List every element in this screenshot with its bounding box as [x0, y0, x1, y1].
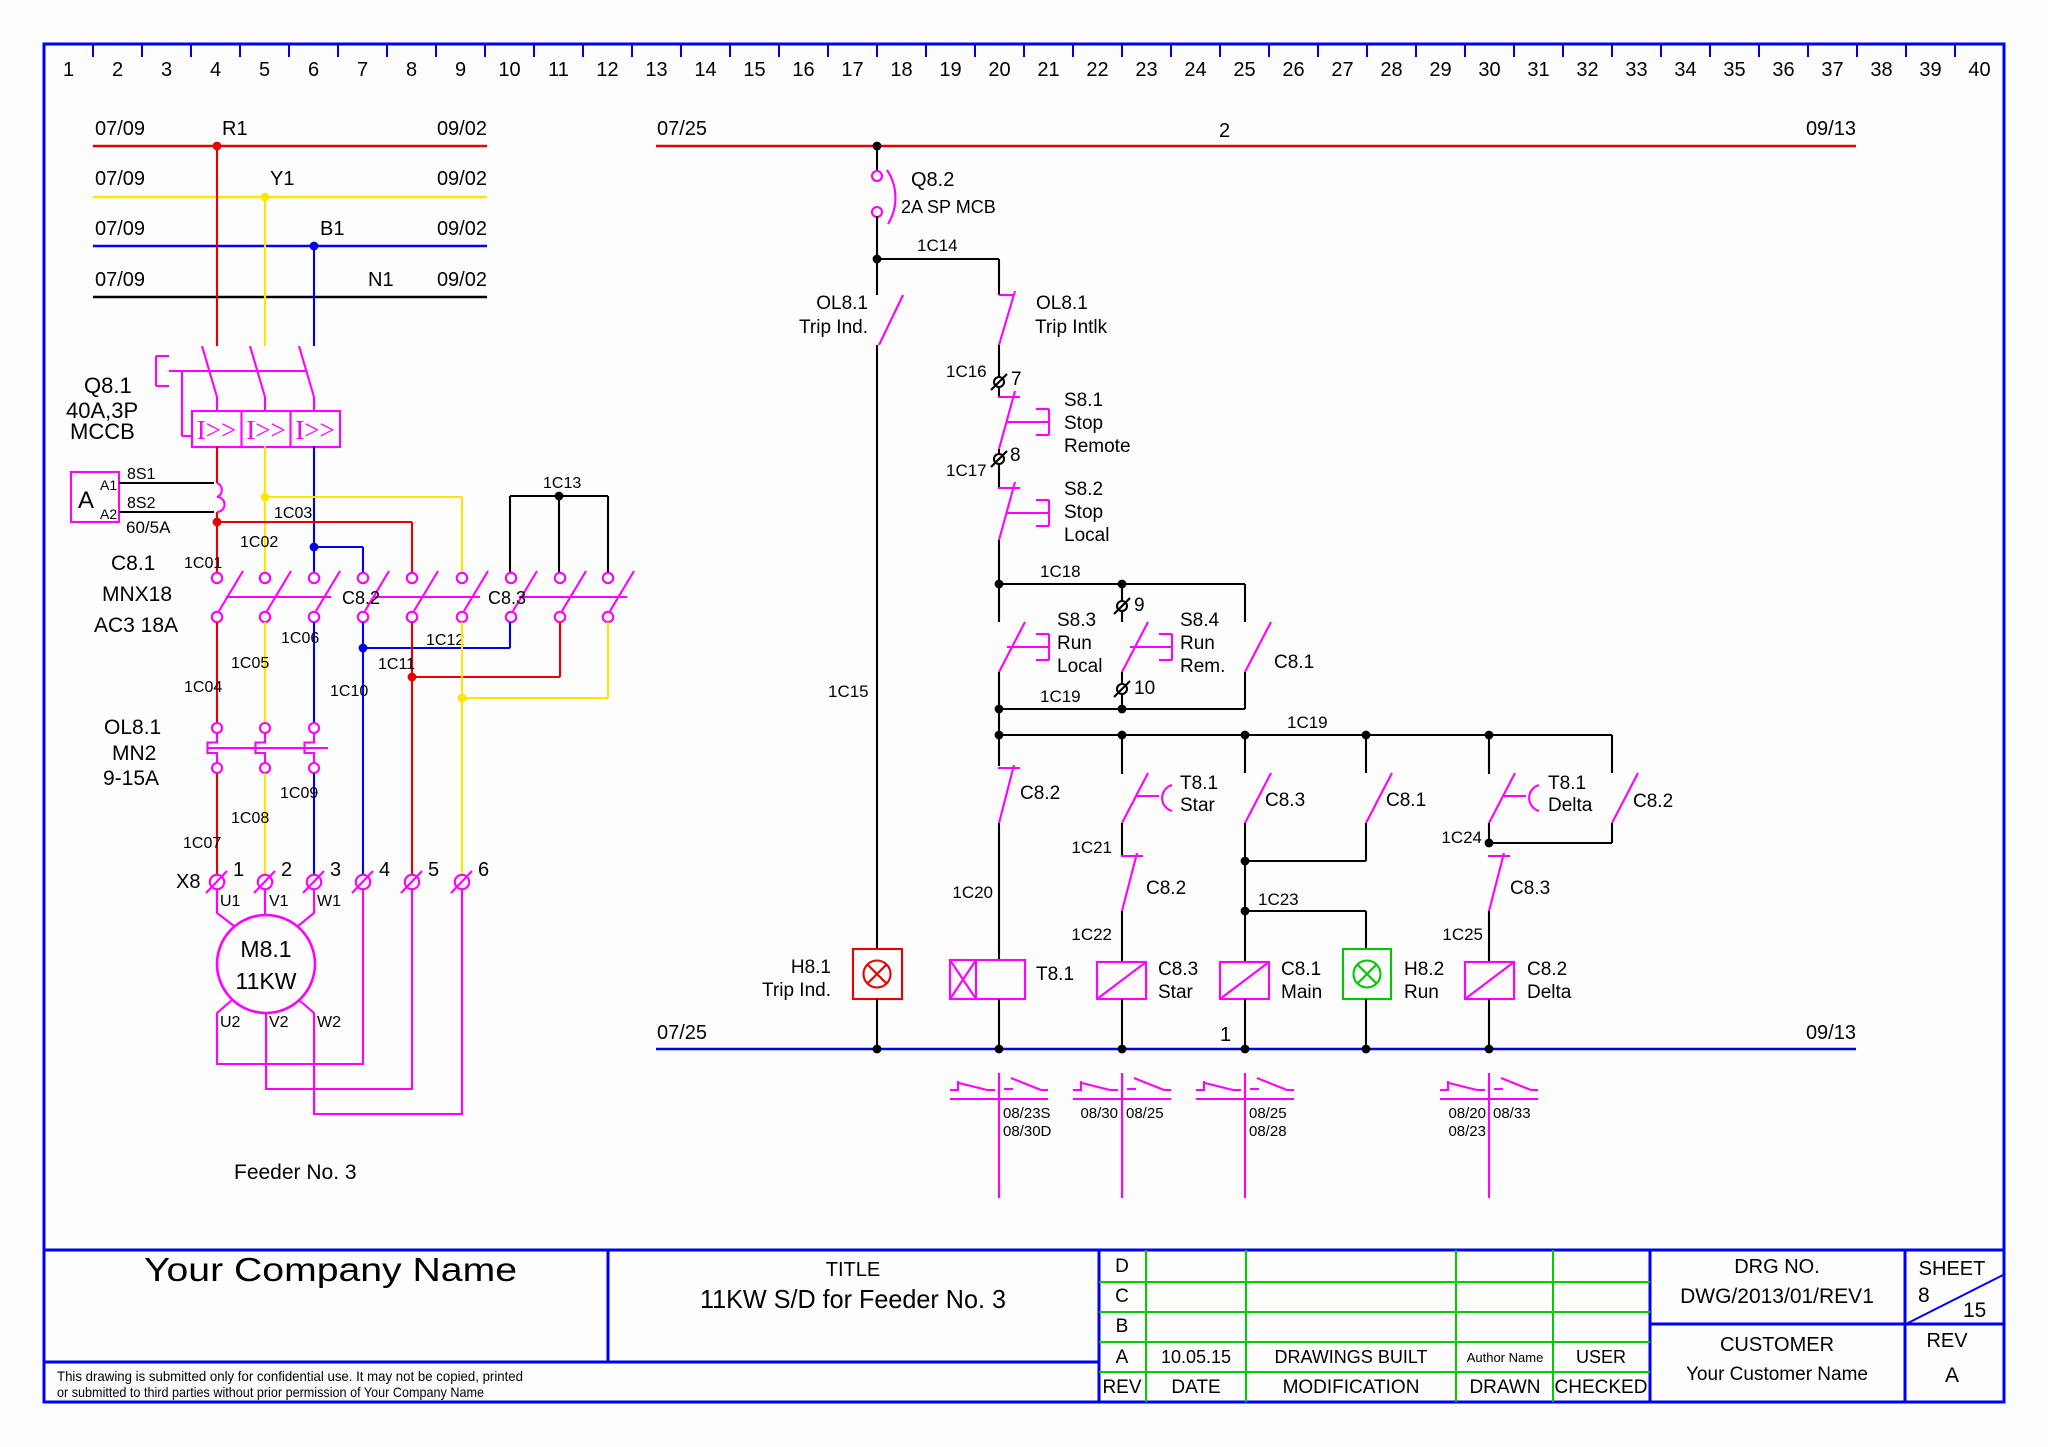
- svg-text:09/02: 09/02: [437, 218, 487, 240]
- svg-text:9: 9: [455, 59, 466, 81]
- circuit breaker Q8.2 2A SP MCB: [872, 169, 996, 224]
- svg-text:X8: X8: [176, 871, 200, 893]
- node link 861: [1241, 857, 1250, 866]
- node 1C03 junction: [213, 518, 222, 527]
- svg-text:DRG NO.: DRG NO.: [1734, 1256, 1820, 1278]
- wire R phase drop: [216, 146, 218, 346]
- svg-text:1C06: 1C06: [281, 630, 319, 647]
- drawing number: [1680, 1256, 1874, 1308]
- svg-text:08/30D: 08/30D: [1003, 1123, 1052, 1140]
- test point 7: [946, 362, 1022, 390]
- svg-text:09/02: 09/02: [437, 168, 487, 190]
- wire 1C22: [1071, 911, 1122, 962]
- svg-text:C8.2: C8.2: [1527, 959, 1567, 980]
- label 1C01: [184, 555, 222, 572]
- test point 9: [1114, 595, 1145, 616]
- svg-text:37: 37: [1821, 59, 1843, 81]
- svg-text:09/13: 09/13: [1806, 1022, 1856, 1044]
- contact T8.1 Delta timed (NO): [1489, 735, 1593, 823]
- contactor C8.2 power contacts: [342, 571, 488, 622]
- node 1C19 upper mid: [1118, 705, 1127, 714]
- svg-text:MN2: MN2: [112, 742, 156, 765]
- motor M8.1 11KW: [217, 915, 315, 1013]
- node R1 tap: [213, 142, 222, 151]
- svg-text:1C13: 1C13: [543, 475, 581, 492]
- svg-text:C8.1: C8.1: [1386, 790, 1426, 811]
- svg-text:34: 34: [1674, 59, 1696, 81]
- node 1C24: [1485, 839, 1494, 848]
- contact OL8.1 Trip Intlk (NC): [999, 291, 1108, 345]
- svg-text:1C15: 1C15: [828, 682, 869, 701]
- svg-text:22: 22: [1086, 59, 1108, 81]
- svg-text:A1: A1: [100, 477, 117, 493]
- svg-text:1C21: 1C21: [1071, 838, 1112, 857]
- svg-text:1C12: 1C12: [426, 632, 464, 649]
- title block frame: [44, 1250, 2004, 1402]
- svg-text:A: A: [1945, 1364, 1959, 1387]
- svg-text:This drawing is submitted only: This drawing is submitted only for confi…: [57, 1368, 523, 1384]
- svg-text:C8.3: C8.3: [1265, 790, 1305, 811]
- svg-text:C8.1: C8.1: [111, 552, 155, 575]
- svg-text:07/25: 07/25: [657, 118, 707, 140]
- wire 1C21: [1071, 823, 1122, 857]
- contact C8.1 aux (NO): [1366, 735, 1426, 823]
- svg-text:C8.1: C8.1: [1274, 652, 1314, 673]
- contactor coil C8.1 Main: [1220, 959, 1322, 1003]
- wire 1C12 blue bridge: [363, 622, 510, 649]
- svg-text:07/09: 07/09: [95, 168, 145, 190]
- svg-text:08/30: 08/30: [1080, 1105, 1118, 1122]
- svg-text:C8.2: C8.2: [1020, 783, 1060, 804]
- wire 1C14: [877, 236, 999, 295]
- svg-text:20: 20: [988, 59, 1010, 81]
- svg-text:27: 27: [1331, 59, 1353, 81]
- svg-text:33: 33: [1625, 59, 1647, 81]
- node bottom rail 4: [1241, 1045, 1250, 1054]
- svg-text:1: 1: [63, 59, 74, 81]
- svg-text:23: 23: [1135, 59, 1157, 81]
- svg-text:T8.1: T8.1: [1180, 773, 1218, 794]
- svg-text:19: 19: [939, 59, 961, 81]
- svg-text:1C01: 1C01: [184, 555, 222, 572]
- svg-text:8: 8: [1918, 1284, 1930, 1307]
- label 1C02: [240, 534, 278, 551]
- svg-text:Star: Star: [1158, 982, 1194, 1003]
- svg-text:OL8.1: OL8.1: [104, 716, 161, 739]
- node bottom rail 3: [1118, 1045, 1127, 1054]
- wire T8.1 to rail: [998, 999, 1000, 1049]
- svg-text:6: 6: [308, 59, 319, 81]
- wire 1C06 blue: [281, 622, 319, 723]
- svg-text:60/5A: 60/5A: [126, 518, 171, 537]
- svg-text:V1: V1: [269, 893, 289, 910]
- svg-text:C8.2: C8.2: [1146, 878, 1186, 899]
- svg-text:21: 21: [1037, 59, 1059, 81]
- overload relay OL8.1 MN2 9-15A: [103, 716, 328, 790]
- svg-text:Main: Main: [1281, 982, 1322, 1003]
- svg-text:CUSTOMER: CUSTOMER: [1720, 1334, 1834, 1356]
- svg-text:B1: B1: [320, 218, 344, 240]
- node 1C19 lower 1: [995, 731, 1004, 740]
- wire V1: [265, 889, 289, 915]
- svg-text:C8.3: C8.3: [1510, 878, 1550, 899]
- svg-text:1C09: 1C09: [280, 785, 318, 802]
- svg-text:08/20: 08/20: [1448, 1105, 1486, 1122]
- svg-text:09/13: 09/13: [1806, 118, 1856, 140]
- rail 1C19 upper: [999, 687, 1245, 709]
- svg-text:R1: R1: [222, 118, 248, 140]
- svg-text:Rem.: Rem.: [1180, 656, 1225, 677]
- svg-text:4: 4: [210, 59, 221, 81]
- svg-text:AC3 18A: AC3 18A: [94, 614, 178, 637]
- svg-text:SHEET: SHEET: [1919, 1258, 1986, 1280]
- wire yellow bridge: [462, 622, 608, 698]
- contact C8.2 star interlock (NC): [1121, 853, 1186, 911]
- svg-text:9-15A: 9-15A: [103, 767, 159, 790]
- node 1C23: [1241, 907, 1250, 916]
- wire 1C09 blue: [280, 773, 318, 874]
- pushbutton S8.2 Stop Local (NC): [998, 479, 1109, 546]
- wire C8.1 to rail: [1244, 999, 1246, 1049]
- circuit breaker Q8.1 40A 3P MCCB: [66, 346, 340, 447]
- wire Q8.2 to 1C14: [876, 216, 878, 259]
- wire C8.2 to rail: [1488, 999, 1490, 1049]
- terminal strip X8 terminals 1-6: [176, 859, 489, 893]
- svg-text:7: 7: [357, 59, 368, 81]
- svg-text:08/25: 08/25: [1126, 1105, 1164, 1122]
- svg-text:Run: Run: [1404, 982, 1439, 1003]
- svg-text:07/09: 07/09: [95, 269, 145, 291]
- svg-text:S8.2: S8.2: [1064, 479, 1103, 500]
- svg-text:10: 10: [498, 59, 520, 81]
- svg-text:5: 5: [428, 859, 439, 881]
- cross-reference T8.1 contacts: [950, 1073, 1052, 1198]
- label 1C03: [274, 505, 312, 522]
- svg-text:A2: A2: [100, 506, 117, 522]
- svg-text:12: 12: [596, 59, 618, 81]
- svg-text:11KW: 11KW: [236, 968, 297, 994]
- svg-text:C8.3: C8.3: [1158, 959, 1198, 980]
- node 1C19 lower 2: [1118, 731, 1127, 740]
- contact C8.2 aux (NO): [1612, 735, 1673, 823]
- svg-text:7: 7: [1011, 369, 1022, 390]
- wire 1C23: [1245, 861, 1366, 911]
- wire T8.1 coil branch: [952, 823, 999, 960]
- node blue 547: [310, 543, 319, 552]
- svg-text:A: A: [1116, 1347, 1129, 1368]
- svg-text:Q8.2: Q8.2: [911, 169, 954, 191]
- wire yellow to C8.2: [265, 497, 462, 572]
- svg-text:35: 35: [1723, 59, 1745, 81]
- bus R1 (phase R): [93, 118, 487, 146]
- wire blue below MCCB: [313, 446, 315, 572]
- contact OL8.1 Trip Ind (NO): [799, 259, 903, 345]
- wire W1: [298, 889, 341, 926]
- svg-text:or submitted to third parties: or submitted to third parties without pr…: [57, 1384, 484, 1400]
- svg-text:I>>: I>>: [197, 415, 236, 445]
- svg-text:8: 8: [1010, 445, 1021, 466]
- svg-text:I>>: I>>: [246, 415, 285, 445]
- svg-text:6: 6: [478, 859, 489, 881]
- svg-text:10.05.15: 10.05.15: [1161, 1347, 1231, 1367]
- svg-text:D: D: [1115, 1256, 1129, 1277]
- svg-text:2: 2: [281, 859, 292, 881]
- svg-text:31: 31: [1527, 59, 1549, 81]
- svg-text:1C08: 1C08: [231, 810, 269, 827]
- svg-text:I>>: I>>: [295, 415, 334, 445]
- svg-text:38: 38: [1870, 59, 1892, 81]
- svg-text:8S2: 8S2: [127, 495, 156, 512]
- svg-text:3: 3: [161, 59, 172, 81]
- wire 7 to S8.1: [998, 387, 1000, 397]
- wire H8.2 drop: [1365, 911, 1367, 949]
- node top rail tap: [873, 142, 882, 151]
- svg-text:Q8.1: Q8.1: [84, 373, 132, 398]
- svg-text:USER: USER: [1576, 1347, 1626, 1367]
- svg-text:U2: U2: [220, 1014, 241, 1031]
- control rail 07/25 bottom: [656, 1022, 1856, 1049]
- svg-text:2: 2: [112, 59, 123, 81]
- pushbutton S8.1 Stop Remote (NC): [998, 390, 1131, 457]
- wire C8.1 coil drop: [1244, 911, 1246, 962]
- svg-text:2A SP MCB: 2A SP MCB: [901, 197, 996, 217]
- svg-text:14: 14: [694, 59, 716, 81]
- node 1C19 lower 4: [1362, 731, 1371, 740]
- contact T8.1 Star timed (NO): [1122, 735, 1218, 823]
- svg-text:Feeder No. 3: Feeder No. 3: [234, 1161, 357, 1184]
- sheet number 8 of 15 rev A: [1906, 1258, 2003, 1387]
- svg-text:S8.4: S8.4: [1180, 610, 1220, 631]
- wire 1C02 blue to C8.2: [314, 547, 363, 572]
- contact C8.1 hold-in (NO): [1245, 584, 1314, 709]
- svg-text:N1: N1: [368, 269, 394, 291]
- svg-text:16: 16: [792, 59, 814, 81]
- wire H8.2 to rail: [1365, 999, 1367, 1049]
- svg-text:11: 11: [548, 59, 569, 81]
- svg-text:Trip Ind.: Trip Ind.: [799, 317, 868, 338]
- svg-text:5: 5: [259, 59, 270, 81]
- wire 10 to 1C19: [1121, 694, 1123, 709]
- indicator lamp H8.1 Trip Ind: [762, 949, 902, 1001]
- svg-text:07/25: 07/25: [657, 1022, 707, 1044]
- wire to test point 7: [998, 345, 1000, 377]
- contactor C8.1 power contacts: [94, 552, 340, 637]
- bus Y1 (phase Y): [93, 168, 487, 197]
- test point 10: [1114, 678, 1155, 699]
- wire 1C03 red: [217, 522, 412, 572]
- svg-text:07/09: 07/09: [95, 218, 145, 240]
- svg-text:Delta: Delta: [1548, 795, 1593, 816]
- svg-text:Delta: Delta: [1527, 982, 1572, 1003]
- cross-reference C8.1 contacts: [1196, 1073, 1294, 1198]
- svg-text:Your Customer Name: Your Customer Name: [1686, 1364, 1868, 1385]
- svg-text:OL8.1: OL8.1: [816, 293, 868, 314]
- pushbutton S8.4 Run Remote (NO): [1122, 610, 1225, 677]
- wire S8.4 upper: [1121, 584, 1123, 601]
- svg-text:MODIFICATION: MODIFICATION: [1283, 1377, 1420, 1398]
- contactor C8.3 power contacts: [488, 571, 634, 622]
- cross-reference C8.2 contacts: [1440, 1073, 1538, 1198]
- svg-text:Local: Local: [1064, 525, 1109, 546]
- node 1C14: [873, 255, 882, 264]
- svg-text:36: 36: [1772, 59, 1794, 81]
- svg-text:S8.1: S8.1: [1064, 390, 1103, 411]
- wire 8 to S8.2: [998, 464, 1000, 488]
- svg-text:08/23S: 08/23S: [1003, 1105, 1051, 1122]
- svg-text:DRAWN: DRAWN: [1469, 1377, 1540, 1398]
- revision table text: [1102, 1256, 1647, 1398]
- svg-text:1C11: 1C11: [378, 656, 415, 673]
- svg-text:V2: V2: [269, 1014, 289, 1031]
- indicator lamp H8.2 Run: [1343, 949, 1444, 1003]
- svg-text:25: 25: [1233, 59, 1255, 81]
- confidential note: [57, 1368, 523, 1400]
- svg-text:OL8.1: OL8.1: [1036, 293, 1088, 314]
- wire 1C24: [1441, 823, 1612, 847]
- svg-text:2: 2: [1219, 120, 1230, 142]
- control rail 07/25 top: [656, 118, 1856, 146]
- svg-text:MNX18: MNX18: [102, 583, 172, 606]
- bus B1 (phase B): [93, 218, 487, 246]
- svg-text:1C23: 1C23: [1258, 890, 1299, 909]
- svg-text:1C25: 1C25: [1442, 925, 1483, 944]
- svg-text:A: A: [78, 487, 94, 514]
- svg-text:9: 9: [1134, 595, 1145, 616]
- svg-text:CHECKED: CHECKED: [1555, 1377, 1648, 1398]
- svg-text:S8.3: S8.3: [1057, 610, 1096, 631]
- svg-text:Local: Local: [1057, 656, 1102, 677]
- svg-text:C8.1: C8.1: [1281, 959, 1321, 980]
- svg-text:Star: Star: [1180, 795, 1216, 816]
- wire 1C08 yellow: [231, 773, 269, 874]
- label Feeder No. 3: [234, 1161, 357, 1184]
- svg-text:10: 10: [1134, 678, 1155, 699]
- node bottom rail 1: [873, 1045, 882, 1054]
- svg-text:29: 29: [1429, 59, 1451, 81]
- pushbutton S8.3 Run Local (NO): [999, 584, 1102, 709]
- svg-text:B: B: [1116, 1316, 1129, 1337]
- svg-text:T8.1: T8.1: [1036, 964, 1074, 985]
- svg-text:8S1: 8S1: [127, 466, 156, 483]
- wire S8.1 to test point 8: [998, 449, 1000, 454]
- company name: [144, 1251, 517, 1288]
- svg-text:C: C: [1115, 1286, 1129, 1307]
- label 1C13: [543, 475, 581, 492]
- wire to Q8.2: [876, 146, 878, 172]
- svg-text:1C14: 1C14: [917, 236, 958, 255]
- wire H8.1 to rail: [876, 999, 878, 1049]
- node 1C12: [359, 644, 368, 653]
- svg-text:18: 18: [890, 59, 912, 81]
- svg-text:Stop: Stop: [1064, 413, 1103, 434]
- svg-text:07/09: 07/09: [95, 118, 145, 140]
- svg-text:8: 8: [406, 59, 417, 81]
- svg-text:C8.2: C8.2: [342, 588, 380, 608]
- svg-text:26: 26: [1282, 59, 1304, 81]
- bus N1 (neutral): [93, 269, 487, 297]
- contact C8.3 delta interlock (NC): [1488, 853, 1550, 911]
- node bottom rail 6: [1485, 1045, 1494, 1054]
- svg-text:Stop: Stop: [1064, 502, 1103, 523]
- wire U2 to X8-4: [217, 889, 363, 1064]
- svg-text:DWG/2013/01/REV1: DWG/2013/01/REV1: [1680, 1285, 1874, 1308]
- test point 8: [946, 445, 1021, 480]
- wire 1C11 red bridge: [378, 622, 560, 677]
- svg-text:DRAWINGS BUILT: DRAWINGS BUILT: [1274, 1347, 1427, 1367]
- svg-text:30: 30: [1478, 59, 1500, 81]
- svg-text:C8.2: C8.2: [1633, 791, 1673, 812]
- node yellow 497: [261, 493, 270, 502]
- contactor coil C8.3 Star: [1097, 959, 1198, 1003]
- node Y1 tap: [261, 193, 270, 202]
- wire C8.3-C8.1 link: [1245, 823, 1366, 861]
- node B1 tap: [310, 242, 319, 251]
- svg-text:3: 3: [330, 859, 341, 881]
- svg-text:1C19: 1C19: [1287, 713, 1328, 732]
- revision table grid: [1099, 1250, 1650, 1402]
- svg-text:1C10: 1C10: [330, 683, 368, 700]
- svg-text:17: 17: [841, 59, 863, 81]
- wire 1C05 yellow: [231, 622, 269, 723]
- svg-text:1C19: 1C19: [1040, 687, 1081, 706]
- node 1C13: [555, 492, 564, 501]
- drawing title: [700, 1259, 1006, 1314]
- wire W2 to X8-6: [299, 889, 462, 1114]
- svg-text:M8.1: M8.1: [240, 936, 291, 962]
- node 1C18 mid: [1118, 580, 1127, 589]
- node 1C19 lower 5: [1485, 731, 1494, 740]
- contact C8.3 aux (NO): [1245, 735, 1305, 823]
- svg-text:09/02: 09/02: [437, 118, 487, 140]
- rail 1C18: [999, 562, 1245, 584]
- svg-text:H8.1: H8.1: [791, 957, 831, 978]
- svg-text:Remote: Remote: [1064, 436, 1131, 457]
- wire 1C13 star bridge: [510, 496, 608, 572]
- wire yellow to X8-6: [461, 698, 463, 874]
- wire 1C10 blue: [330, 648, 368, 874]
- svg-text:13: 13: [645, 59, 667, 81]
- wire yellow below MCCB: [264, 446, 266, 572]
- svg-text:15: 15: [1963, 1299, 1986, 1322]
- svg-text:C8.3: C8.3: [488, 588, 526, 608]
- node 1C11: [408, 673, 417, 682]
- svg-text:1C20: 1C20: [952, 883, 993, 902]
- wire S8.2 to 1C18: [998, 540, 1000, 584]
- svg-text:1C18: 1C18: [1040, 562, 1081, 581]
- svg-text:T8.1: T8.1: [1548, 773, 1586, 794]
- svg-text:1C05: 1C05: [231, 655, 269, 672]
- wire 1C01 red below MCCB: [216, 446, 218, 572]
- svg-text:40: 40: [1968, 59, 1990, 81]
- svg-text:32: 32: [1576, 59, 1598, 81]
- svg-text:4: 4: [379, 859, 390, 881]
- svg-text:24: 24: [1184, 59, 1206, 81]
- svg-text:Y1: Y1: [270, 168, 294, 190]
- timer coil T8.1: [950, 960, 1074, 999]
- svg-text:W2: W2: [317, 1014, 341, 1031]
- svg-text:Run: Run: [1180, 633, 1215, 654]
- svg-text:1: 1: [1220, 1024, 1231, 1046]
- svg-text:09/02: 09/02: [437, 269, 487, 291]
- svg-text:1C24: 1C24: [1441, 828, 1482, 847]
- rail 1C19 lower: [999, 713, 1612, 735]
- svg-text:Your Company Name: Your Company Name: [144, 1251, 517, 1288]
- node 1C18 left: [995, 580, 1004, 589]
- svg-text:1C22: 1C22: [1071, 925, 1112, 944]
- customer: [1686, 1334, 1868, 1385]
- svg-text:1C07: 1C07: [183, 835, 221, 852]
- current transformer A 60/5A: [71, 466, 225, 537]
